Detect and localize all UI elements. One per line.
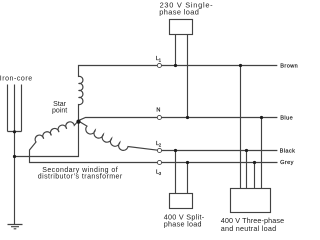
svg-text:2: 2 [159, 143, 162, 148]
svg-text:Brown: Brown [280, 63, 298, 69]
svg-text:Blue: Blue [280, 116, 293, 122]
svg-text:and neutral load: and neutral load [221, 224, 277, 233]
svg-text:point: point [52, 108, 67, 115]
svg-text:distributor’s transformer: distributor’s transformer [38, 174, 123, 181]
svg-text:Grey: Grey [280, 160, 294, 166]
svg-text:N: N [156, 107, 160, 113]
svg-text:Black: Black [280, 149, 296, 155]
svg-text:1: 1 [159, 57, 162, 62]
svg-text:phase load: phase load [164, 220, 202, 229]
svg-text:phase load: phase load [159, 7, 199, 16]
svg-text:Iron-core: Iron-core [0, 75, 33, 82]
svg-text:3: 3 [159, 171, 162, 176]
